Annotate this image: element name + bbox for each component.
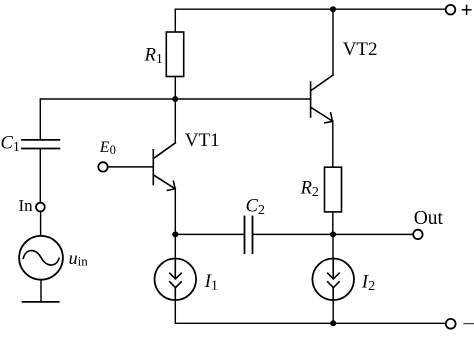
node junction R1-base [172,96,178,102]
node terminal E0 [98,162,107,171]
svg-text:E0: E0 [99,139,116,157]
svg-text:VT1: VT1 [185,130,220,151]
node terminal plus [446,5,456,15]
wire VT2 emitter lead [332,121,334,167]
node terminal minus [446,319,456,329]
svg-text:Out: Out [414,208,444,229]
wire I1 to bottom rail [174,300,176,323]
wire source to ground [40,280,42,302]
svg-text:I2: I2 [361,272,375,294]
transistor VT2 [311,75,333,123]
svg-text:VT2: VT2 [343,39,378,60]
wire VT2 collector lead [332,9,334,75]
wire C1 branch [39,99,41,140]
wire base row [40,98,310,100]
wire R1 bottom lead [174,77,176,100]
wire junction to I1 [174,234,176,258]
svg-text:R1: R1 [144,46,163,68]
source u_in [19,236,63,280]
svg-text:C2: C2 [246,196,265,218]
wire top rail [175,8,445,10]
resistor R1 [166,32,183,77]
resistor R2 [325,167,342,212]
label minus [464,323,474,325]
wire R1 top lead [174,9,176,32]
capacitor C1 [22,140,59,149]
node junction R2-I2 [330,231,336,237]
svg-text:I1: I1 [204,272,218,294]
transistor VT1 [153,143,175,191]
label plus [463,5,471,14]
svg-text:In: In [19,196,34,215]
node junction emitter row [172,231,178,237]
wire bottom rail [175,322,446,324]
wire mid row left [175,233,243,235]
wire VT1 emitter lead [174,189,176,235]
svg-text:R2: R2 [300,179,319,201]
node terminal Out [413,230,422,239]
wire C1 to In [39,149,41,203]
wire In to source [40,212,42,236]
wire R2 bottom lead [332,212,334,235]
node junction bottom rail [330,320,336,326]
current source I2 [312,259,354,301]
node junction top rail [330,6,336,12]
wire mid row right [253,233,413,235]
capacitor C2 [245,217,253,254]
wire junction to I2 [332,234,334,258]
wire VT1 collector lead [174,99,176,143]
svg-text:uin: uin [69,248,89,269]
wire I2 to bottom rail [332,300,334,323]
node terminal In [36,203,45,212]
ground [23,301,59,303]
wire E0 to VT1 base [108,166,154,168]
svg-text:C1: C1 [1,133,20,155]
current source I1 [155,259,197,301]
